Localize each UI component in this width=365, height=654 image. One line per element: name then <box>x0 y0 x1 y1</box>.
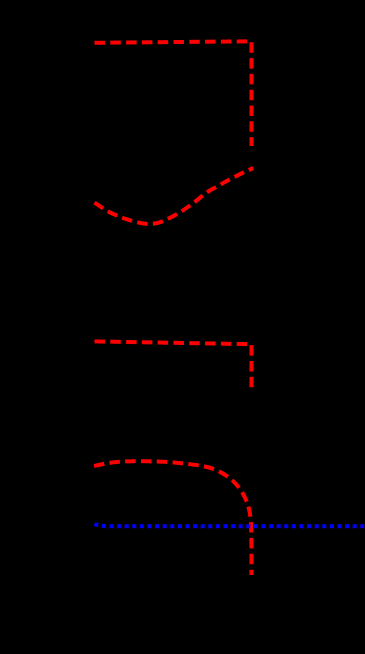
top subplot: lower branch (dip curve), red dashed <box>95 168 254 224</box>
top subplot: upper branch (flat line with vertical drop), red dashed <box>95 41 252 146</box>
bottom subplot: upper branch (flat line with vertical drop), red dashed <box>95 341 252 389</box>
bottom subplot: blue dotted horizontal reference line <box>95 524 365 526</box>
bottom subplot: lower branch (curve plunging down), red dashed <box>94 461 252 575</box>
